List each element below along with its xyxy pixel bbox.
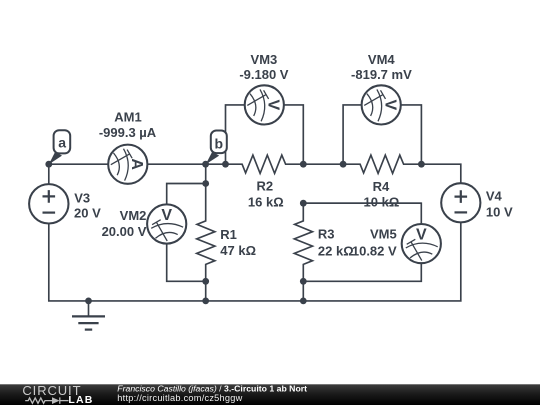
junction R2 left / VM3 left	[222, 161, 229, 168]
voltage source V3	[29, 184, 68, 223]
ground	[72, 301, 105, 330]
voltmeter VM5	[402, 224, 441, 263]
svg-text:V: V	[381, 100, 398, 111]
resistor R2 16k	[226, 155, 304, 173]
resistor R1 47k	[197, 184, 215, 282]
svg-text:b: b	[215, 135, 224, 151]
junction VM2 bottom tap	[202, 278, 209, 285]
svg-text:V4: V4	[486, 188, 503, 203]
junction VM2 top tap	[202, 180, 209, 187]
wire R4 right pin to V4 top corner	[421, 164, 460, 183]
svg-text:V3: V3	[74, 191, 90, 206]
junction R2 right / VM3 right / R3 branch	[300, 161, 307, 168]
wire VM5 bottom lead	[303, 263, 421, 281]
svg-text:AM1: AM1	[114, 110, 141, 125]
wire node b down to R1 top pin	[205, 164, 207, 183]
svg-text:V: V	[416, 226, 427, 243]
junction R4 right / VM4 right	[418, 161, 425, 168]
wire node b to R2 left pin	[206, 163, 226, 165]
ammeter AM1	[108, 145, 147, 184]
junction R3 bottom / VM5 bottom	[300, 278, 307, 285]
wire VM4 right lead	[401, 105, 422, 164]
wire top rail node a to AM1	[49, 163, 108, 165]
svg-text:a: a	[58, 135, 66, 151]
junction R3 branch at bus	[300, 298, 307, 305]
svg-text:10 kΩ: 10 kΩ	[364, 195, 400, 210]
svg-text:A: A	[128, 158, 145, 170]
svg-text:47 kΩ: 47 kΩ	[220, 243, 256, 258]
wire VM2 top lead	[167, 184, 206, 205]
junction ground tap	[85, 298, 92, 305]
voltage source V4	[441, 183, 480, 222]
svg-text:VM5: VM5	[370, 227, 397, 242]
junction node a	[45, 161, 52, 168]
svg-text:R2: R2	[256, 179, 273, 194]
svg-text:V: V	[161, 207, 172, 224]
footer bar	[0, 384, 540, 405]
wire R3 bottom pin to bottom bus	[302, 281, 304, 301]
voltmeter VM4	[362, 85, 401, 124]
logo diode triangle	[52, 397, 60, 404]
wire node a down to V3 top	[48, 164, 50, 184]
wire VM3 left lead	[226, 105, 245, 164]
wire VM5 top lead	[303, 203, 421, 224]
svg-text:V: V	[265, 100, 282, 111]
svg-text:R4: R4	[373, 179, 390, 194]
svg-text:R1: R1	[220, 227, 237, 242]
svg-text:Francisco Castillo (jfacas) /: Francisco Castillo (jfacas) / 3.-Circuit…	[117, 383, 307, 393]
resistor R3 22k	[294, 203, 312, 281]
svg-text:22 kΩ: 22 kΩ	[318, 243, 354, 258]
voltmeter VM2	[147, 204, 186, 243]
svg-text:20.00 V: 20.00 V	[102, 224, 147, 239]
wire VM4 left lead	[343, 105, 362, 164]
svg-text:-9.180 V: -9.180 V	[239, 67, 288, 82]
svg-text:VM4: VM4	[368, 52, 396, 67]
svg-text:http://circuitlab.com/cz5hggw: http://circuitlab.com/cz5hggw	[117, 393, 242, 403]
logo resistor-diode symbol	[25, 397, 68, 403]
wire V3 bottom via bottom bus to V4 bottom	[49, 222, 461, 301]
voltmeter VM3	[245, 85, 284, 124]
svg-text:VM2: VM2	[120, 208, 147, 223]
wire VM2 bottom lead	[167, 244, 206, 282]
svg-text:-999.3 µA: -999.3 µA	[99, 125, 157, 140]
resistor R4 10k	[343, 155, 421, 173]
svg-text:VM3: VM3	[251, 52, 278, 67]
junction R3 top / VM5 top	[300, 200, 307, 207]
wire R1 bottom pin to bottom bus	[205, 281, 207, 301]
junction R4 left / VM4 left	[340, 161, 347, 168]
junction R1 branch at bus	[202, 298, 209, 305]
node a flag	[49, 130, 70, 164]
svg-text:10.82 V: 10.82 V	[352, 243, 397, 258]
svg-text:20 V: 20 V	[74, 206, 101, 221]
svg-text:-819.7 mV: -819.7 mV	[351, 67, 412, 82]
node b flag	[206, 131, 227, 165]
wire VM3 right lead	[284, 105, 303, 164]
wire VM5 top lead overlay (crosses 10 k ohm label)	[303, 202, 421, 204]
junction node b	[202, 161, 209, 168]
wire AM1 to node b	[147, 163, 205, 165]
svg-text:LAB: LAB	[68, 394, 93, 405]
svg-text:10 V: 10 V	[486, 205, 513, 220]
svg-text:16 kΩ: 16 kΩ	[248, 195, 284, 210]
wire R2 right pin to R4 left pin	[303, 163, 343, 165]
svg-text:R3: R3	[318, 227, 335, 242]
